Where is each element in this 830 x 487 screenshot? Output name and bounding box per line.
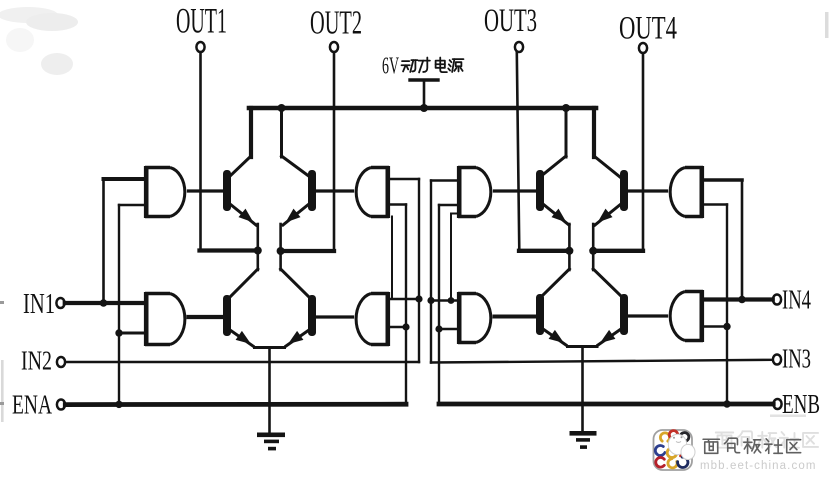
- wire IN1 riser to A1: [102, 179, 105, 303]
- svg-text:mbb.eet-china.com: mbb.eet-china.com: [700, 460, 817, 472]
- wire collector Q1: [229, 156, 251, 177]
- and-gate A1 (IN1,ENA -> Q1): [144, 166, 149, 218]
- wire collector Q3: [230, 269, 258, 297]
- wire to ground right: [581, 347, 584, 432]
- wire IN3 into A6 input A: [431, 299, 458, 302]
- wire A8 output to Q8 base: [627, 314, 667, 317]
- transistor Q8: [620, 294, 628, 335]
- transistor Q7: [536, 294, 544, 335]
- wire Q1-Q3 link: [256, 251, 259, 271]
- wire IN4 riser to A7: [741, 180, 744, 300]
- wire IN3 riser: [430, 181, 432, 363]
- node OUT4 junction: [589, 247, 597, 255]
- transistor Q4: [308, 295, 316, 336]
- wire Q5-Q7 link: [568, 251, 571, 270]
- svg-text:IN1: IN1: [23, 289, 55, 320]
- svg-text:ENB: ENB: [782, 390, 820, 420]
- watermark ghost text: [716, 431, 818, 447]
- terminal OUT1: [196, 42, 204, 52]
- wire IN2 riser: [418, 179, 420, 362]
- wire IN1: [65, 301, 145, 305]
- and-gate A5 (IN3,ENB -> Q5): [457, 166, 462, 218]
- wire OUT4 vertical: [642, 53, 645, 251]
- node ENB to A6: [435, 325, 442, 332]
- node ENA to A2: [115, 329, 122, 336]
- and-gate A4 (IN2,ENA -> Q4, mirrored): [385, 292, 390, 346]
- node OUT3 junction: [565, 247, 573, 255]
- wire ENA into A4 input B: [389, 326, 406, 328]
- wire ENA into A3 input B: [389, 203, 406, 205]
- wire ENB left riser: [438, 205, 440, 404]
- wire ENB into A7 input B: [703, 203, 727, 205]
- svg-text:OUT3: OUT3: [484, 2, 537, 38]
- node A6 corner junction: [448, 297, 455, 304]
- and-gate A7 (IN4,ENB -> Q6, mirrored): [699, 166, 704, 218]
- wire bus right end drop: [592, 108, 596, 157]
- wire A2 output to Q3 base: [189, 315, 225, 319]
- node power junction: [420, 104, 428, 112]
- ground left bridge: [257, 433, 285, 438]
- wire OUT2 vertical: [333, 52, 336, 251]
- wire bus left end drop: [249, 108, 253, 157]
- wire collector Q2: [282, 156, 311, 177]
- node IN4 branch: [738, 296, 746, 304]
- wire Q2 emitter drop: [279, 224, 282, 251]
- wire Q6 emitter drop: [592, 224, 595, 251]
- transistor Q5: [536, 170, 544, 211]
- ground right bridge: [570, 431, 597, 436]
- terminal ENA: [57, 400, 65, 410]
- wire IN1 into A1 input A: [104, 177, 146, 181]
- wire emitter join right bridge: [566, 345, 599, 348]
- wire emitter join left bridge: [253, 346, 286, 349]
- node ENA to A4: [402, 323, 409, 330]
- wire collector Q6: [594, 156, 620, 177]
- wire Q6-Q8 link: [592, 251, 595, 270]
- node ENB to A8: [723, 323, 730, 330]
- wire OUT1 rail: [200, 248, 258, 252]
- and-gate A2 (IN1,ENA -> Q3): [144, 292, 149, 346]
- wire A3 output to Q2 base: [315, 189, 353, 192]
- wire A6 output to Q7 base: [495, 315, 538, 319]
- wire power feed: [423, 80, 426, 108]
- wire Q5 emitter drop: [568, 224, 571, 251]
- svg-text:ENA: ENA: [12, 391, 52, 421]
- node IN3 to A6: [427, 297, 434, 304]
- wire OUT3 vertical: [517, 52, 520, 251]
- wire ENB into A6 input B: [439, 328, 458, 330]
- node OUT1 junction: [254, 247, 262, 255]
- terminal ENB: [773, 399, 781, 409]
- node OUT2 junction: [277, 247, 285, 255]
- node IN1 branch: [100, 299, 108, 307]
- and-gate A6 (IN3,ENB -> Q7): [457, 292, 462, 344]
- node left bridge V+ tap: [278, 104, 286, 112]
- watermark text 面包板社区: [703, 439, 719, 453]
- transistor Q3: [223, 295, 231, 336]
- wire to ground left: [268, 348, 271, 434]
- svg-text:IN3: IN3: [782, 344, 811, 374]
- V+ bus: [249, 106, 596, 111]
- wire IN4: [703, 297, 773, 301]
- wire ENA right riser: [405, 205, 407, 405]
- terminal IN2: [57, 357, 65, 367]
- wire A4 output to Q4 base: [315, 315, 353, 318]
- svg-text:6V: 6V: [382, 53, 400, 80]
- wire ENB: [439, 402, 773, 407]
- svg-text:OUT4: OUT4: [619, 11, 677, 47]
- wire OUT2 rail: [281, 249, 334, 253]
- and-gate A8 (IN4,ENB -> Q8, mirrored): [699, 290, 704, 342]
- wire left tap drop: [280, 108, 283, 157]
- wire A7 output to Q6 base: [627, 189, 667, 192]
- terminal IN4: [773, 295, 781, 305]
- wire IN2 into A4 input A: [389, 298, 419, 300]
- wire A5 corner link: [450, 214, 452, 301]
- terminal OUT3: [515, 42, 523, 52]
- wire ENB into A8 input B: [703, 325, 727, 328]
- wire ENB riser to A7: [726, 205, 728, 405]
- wire IN3 into A5 input A: [431, 179, 458, 181]
- svg-text:IN4: IN4: [782, 285, 811, 315]
- node IN2 to A4: [415, 295, 422, 302]
- wire A3 corner link: [391, 217, 393, 300]
- watermark logo box: [654, 430, 693, 470]
- node ENB branch: [723, 400, 730, 407]
- power supply terminal bar: [410, 78, 438, 81]
- wire ENA riser to A1: [118, 205, 120, 404]
- svg-text:OUT2: OUT2: [310, 4, 362, 42]
- wire ENA into A2 input B: [119, 332, 145, 335]
- node right bridge V+ tap: [562, 104, 570, 112]
- terminal OUT2: [330, 42, 338, 52]
- wire OUT3 rail: [519, 249, 569, 253]
- wire OUT4 rail: [593, 249, 643, 253]
- wire collector Q8: [593, 269, 621, 296]
- wire A5 output to Q5 base: [495, 189, 538, 192]
- wire ENA: [65, 402, 406, 407]
- wire IN3: [431, 360, 773, 363]
- wire right tap drop: [565, 108, 568, 157]
- wire collector Q4: [281, 269, 309, 297]
- wire collector Q7: [542, 269, 569, 296]
- wire IN4 into A7 input A: [703, 178, 742, 182]
- wire IN2 into A3 input A: [389, 178, 419, 180]
- wire collector Q5: [540, 156, 566, 177]
- terminal IN3: [773, 355, 781, 365]
- terminal OUT4: [639, 43, 647, 53]
- terminal IN1: [56, 298, 64, 308]
- wire A5 corner stub: [451, 213, 459, 215]
- wire ENA into A1 input B: [119, 204, 145, 206]
- node ENA branch: [115, 401, 122, 408]
- svg-text:OUT1: OUT1: [176, 2, 227, 41]
- wire Q2-Q4 link: [279, 251, 282, 270]
- transistor Q2: [308, 170, 316, 211]
- wire ENB into A5 input B: [439, 204, 458, 206]
- wire A1 output to Q1 base: [189, 189, 225, 192]
- wire OUT1 vertical: [199, 52, 202, 250]
- svg-text:IN2: IN2: [21, 347, 52, 377]
- transistor Q1: [223, 170, 231, 211]
- wire IN2: [65, 361, 419, 363]
- transistor Q6: [620, 170, 628, 211]
- wire Q1 emitter drop: [256, 224, 259, 251]
- and-gate A3 (IN2,ENA -> Q2, mirrored): [385, 166, 390, 218]
